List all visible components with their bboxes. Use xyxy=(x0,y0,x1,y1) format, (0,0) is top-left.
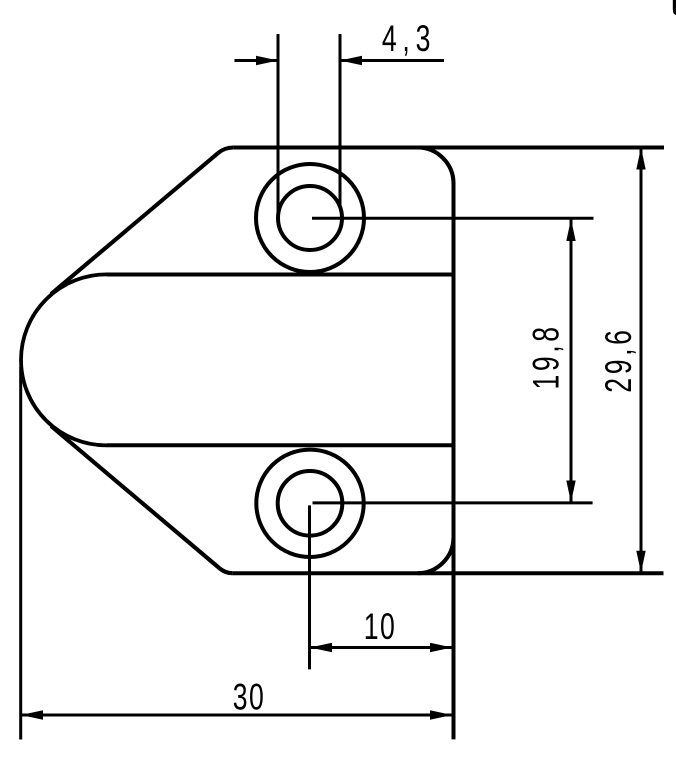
dim 10 arrow left (pointing left) xyxy=(310,643,332,652)
part top-right corner fillet xyxy=(418,148,454,184)
bottom hole centerline extension (for 19,8 / 29,6) xyxy=(313,501,593,504)
dim 30 arrow right (pointing right) xyxy=(430,710,452,719)
bottom hole vertical centerline extension (for 10) xyxy=(308,505,311,669)
dim 30 arrow left (pointing left) xyxy=(21,710,43,719)
dim 4,3 right extension line xyxy=(339,34,342,207)
dim 29,6 arrow bottom (pointing down) xyxy=(636,551,645,573)
dim 19,8 arrow bottom (pointing down) xyxy=(566,481,575,503)
dim 10 arrow right (pointing right) xyxy=(430,643,452,652)
svg-text:4,3: 4,3 xyxy=(382,18,436,59)
part top edge (with extension to right for 29,6) xyxy=(233,146,664,150)
dim 29,6 arrow top (pointing up) xyxy=(636,148,645,170)
top hole bore circle d4.3 xyxy=(278,186,342,250)
svg-text:29,6: 29,6 xyxy=(598,326,639,392)
part bottom-left fillet xyxy=(220,569,233,574)
dim 4,3 dimension line left part xyxy=(235,59,279,62)
part bottom-left diagonal chamfer xyxy=(51,426,220,568)
dim 30 dimension line xyxy=(21,714,452,717)
part bottom-right corner fillet xyxy=(418,537,454,573)
dim 4,3 arrow right (pointing left) xyxy=(340,56,362,65)
top hole counterbore circle xyxy=(256,164,364,272)
part right edge (with extension down for 10 and 30) xyxy=(452,184,456,740)
part bottom edge (with extension to right for 29,6) xyxy=(233,571,664,575)
part top-left fillet xyxy=(218,148,234,154)
dim 4,3 arrow left (pointing right) xyxy=(256,56,278,65)
dim 4,3 left extension line xyxy=(277,34,280,219)
dim 19,8 dimension line xyxy=(570,219,573,503)
bottom hole counterbore circle xyxy=(256,450,363,557)
upper tangent edge line of nose xyxy=(107,273,454,277)
top hole centerline extension (for 19,8) xyxy=(312,217,594,220)
svg-text:30: 30 xyxy=(233,676,265,717)
dim 19,8 arrow top (pointing up) xyxy=(566,219,575,241)
left nose semicircular arc R6 xyxy=(21,274,107,445)
part top-left diagonal chamfer xyxy=(51,153,218,294)
bottom hole bore circle d4.3 xyxy=(278,471,343,536)
stray cropped glyph mark top right corner xyxy=(673,0,676,15)
dim 4,3 dimension line right part xyxy=(340,59,444,62)
dim 10 dimension line xyxy=(310,646,452,649)
svg-text:19,8: 19,8 xyxy=(525,323,566,389)
svg-text:10: 10 xyxy=(364,606,396,647)
dim 29,6 dimension line xyxy=(640,148,643,573)
left extreme extension line (for 30) xyxy=(19,367,22,740)
lower tangent edge line of nose xyxy=(107,443,454,447)
